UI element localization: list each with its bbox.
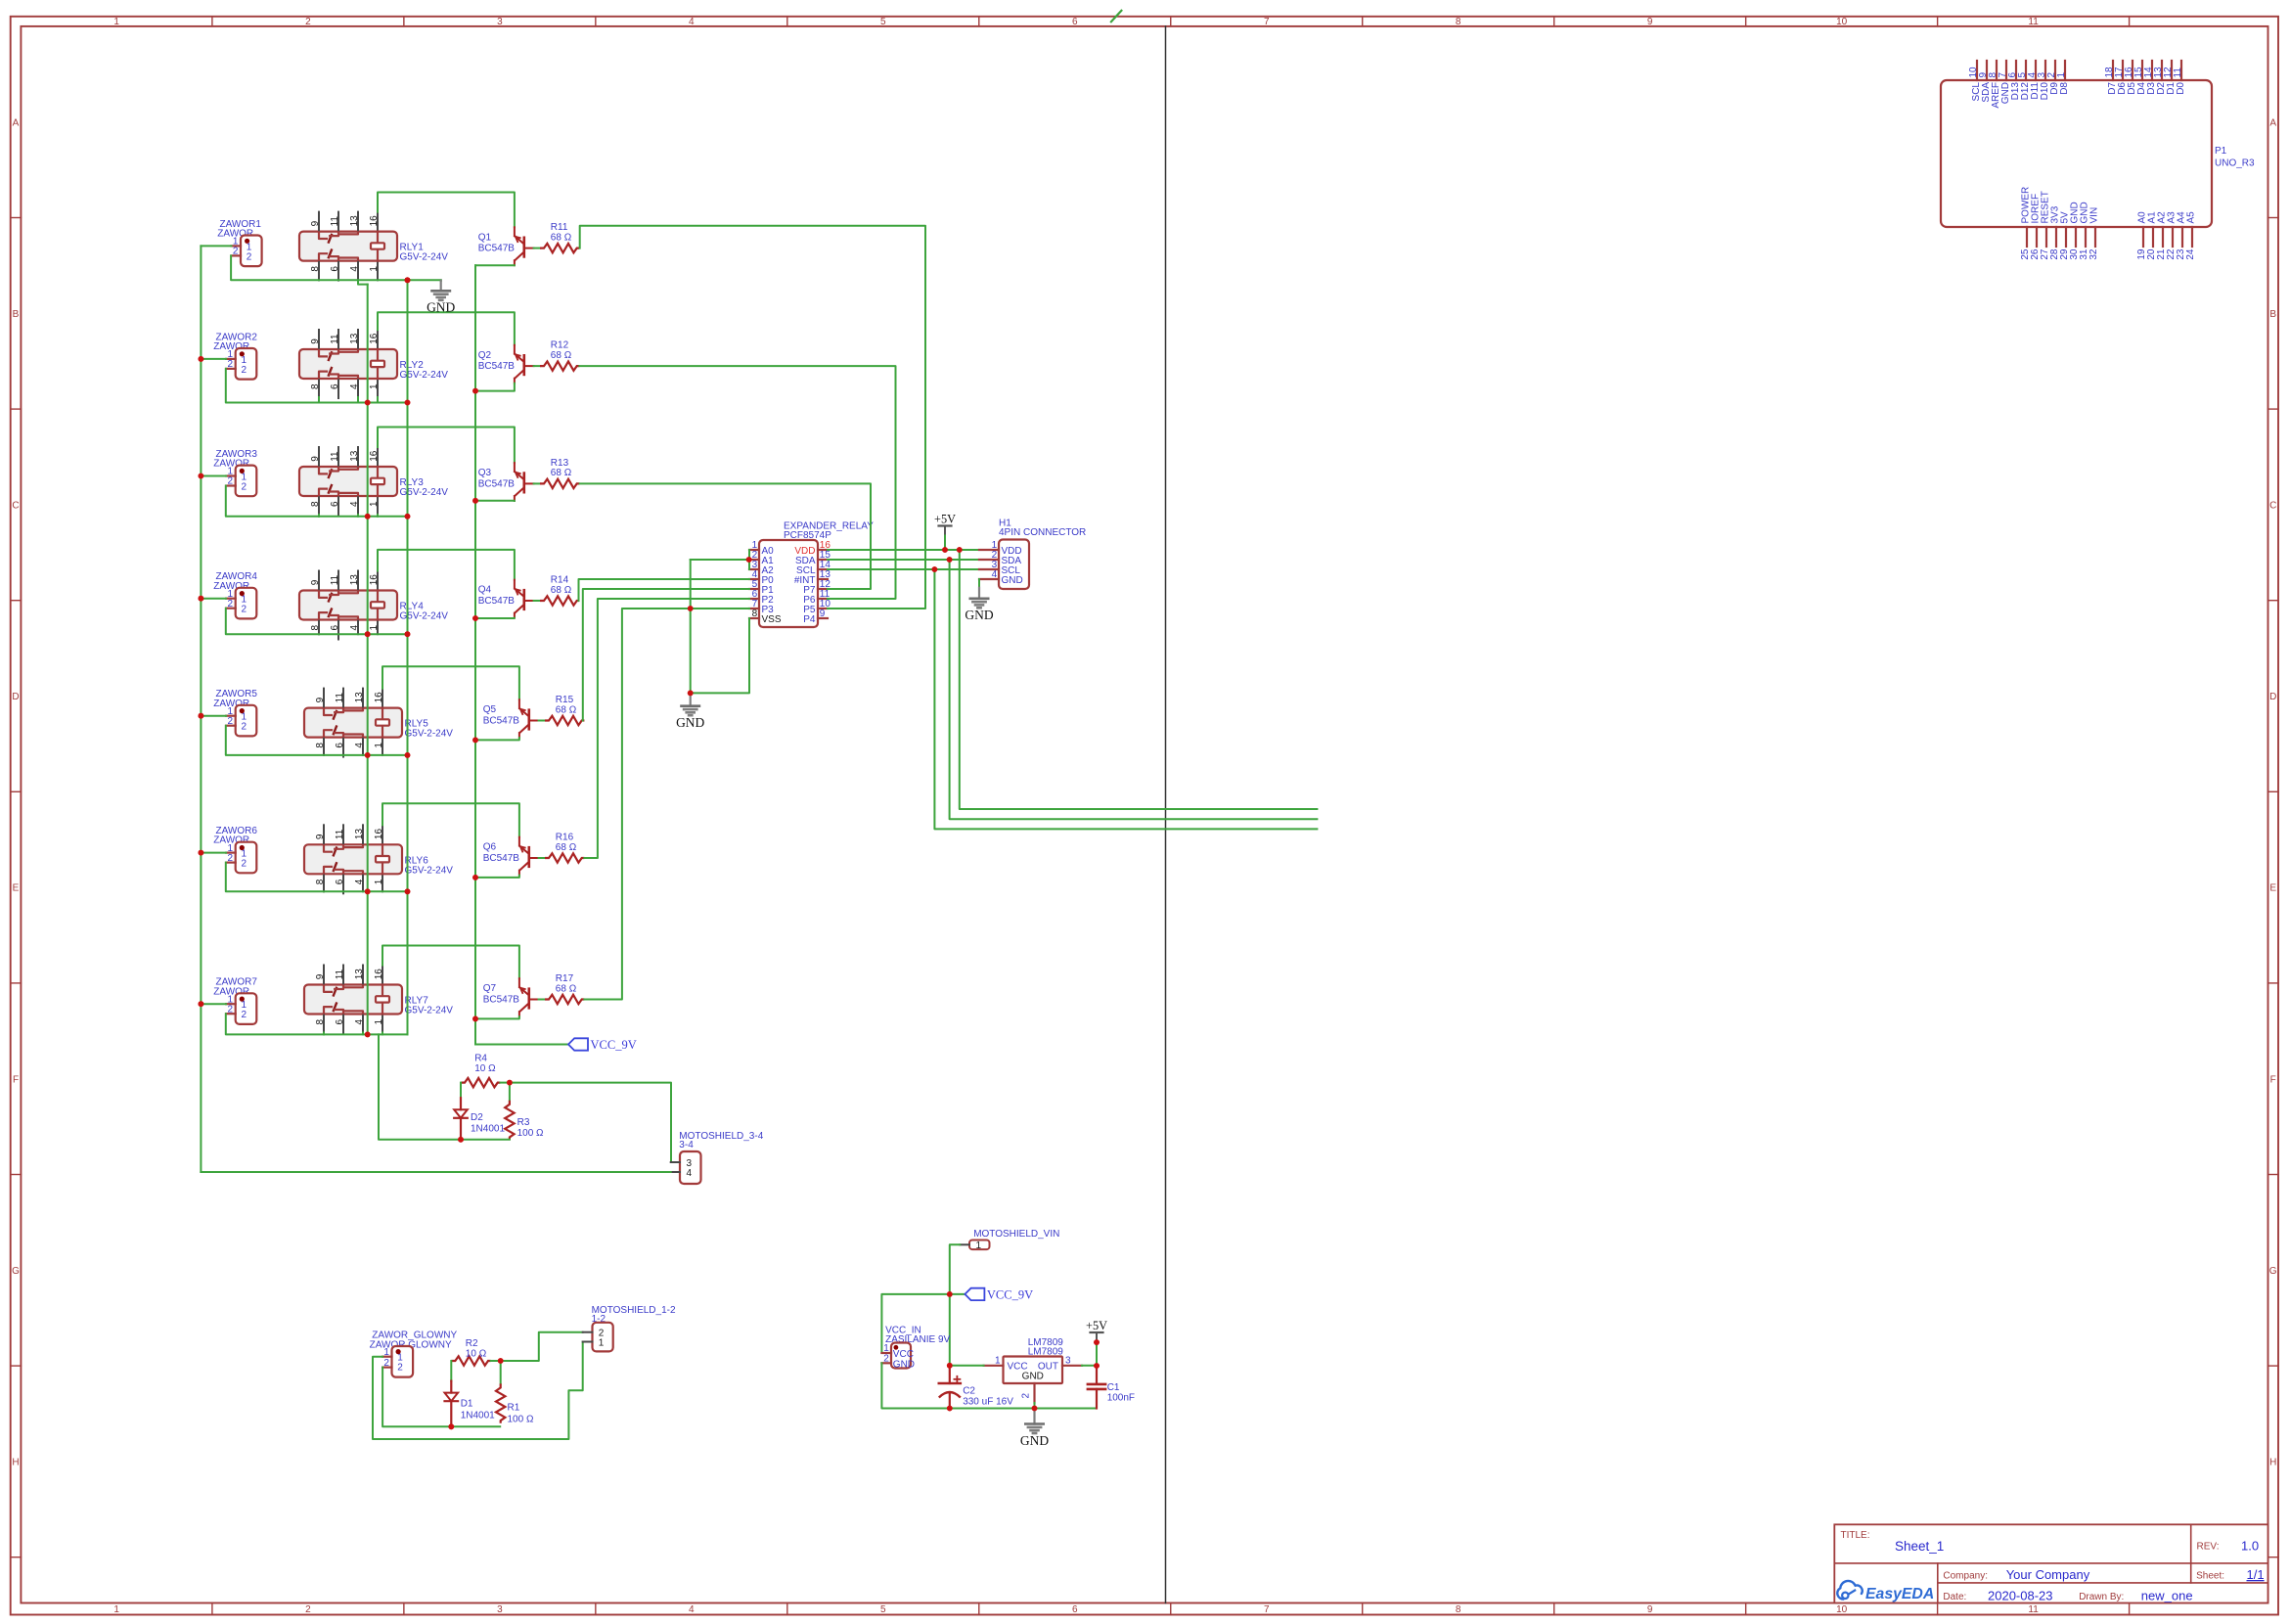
wire P0 to R14 output — [579, 579, 750, 601]
junction Q3 emitter / emitter rail — [472, 498, 478, 504]
svg-text:11: 11 — [335, 969, 345, 979]
svg-text:TITLE:: TITLE: — [1841, 1530, 1870, 1541]
wire R4 output stub — [500, 1082, 510, 1084]
resistor R2 10 ohm — [451, 1356, 490, 1365]
wire Q7 base to R17 — [539, 999, 545, 1001]
svg-text:R17: R17 — [556, 973, 574, 984]
svg-text:A: A — [2269, 117, 2276, 128]
svg-text:1.0: 1.0 — [2241, 1539, 2259, 1554]
wire ZAWOR3 pin2 down to row bottom net — [226, 486, 319, 517]
svg-text:GND: GND — [893, 1359, 915, 1370]
svg-text:2: 2 — [383, 1358, 389, 1369]
svg-text:9: 9 — [315, 834, 326, 839]
wire Q6 emitter to emitter rail — [475, 876, 519, 878]
wire ZAWOR5 pin1 to left rail — [201, 715, 226, 717]
wire RLY7 coil pin16 to Q7 collector — [382, 946, 519, 979]
relay RLY7 G5V-2-24V — [304, 985, 402, 1015]
stray green slash mark — [1111, 11, 1122, 22]
svg-text:Q3: Q3 — [478, 468, 492, 478]
net flag VCC_9V (left) — [568, 1038, 588, 1050]
svg-text:1: 1 — [374, 743, 384, 748]
svg-text:REV:: REV: — [2197, 1542, 2220, 1553]
wire pin4 jog to pin-4 chain rail — [358, 280, 368, 284]
wire RLY1 coil pin16 to Q1 collector — [378, 193, 515, 228]
svg-text:R14: R14 — [551, 574, 569, 585]
wire VCC_9V node down to LM7809 VCC — [949, 1294, 951, 1366]
junction C2 bottom — [947, 1406, 953, 1412]
svg-text:+5V: +5V — [934, 512, 956, 525]
ground GND (H1) — [978, 588, 980, 599]
wire R13 output to P7 — [580, 483, 871, 589]
svg-text:5: 5 — [880, 1604, 886, 1615]
svg-text:UNO_R3: UNO_R3 — [2215, 158, 2255, 169]
svg-text:2: 2 — [305, 1604, 311, 1615]
svg-text:VCC_9V: VCC_9V — [987, 1287, 1033, 1301]
wire Q2 base to R12 — [534, 365, 540, 367]
svg-text:C: C — [12, 501, 19, 512]
wire RLY3 coil pin16 to Q3 collector — [378, 428, 515, 464]
svg-text:32: 32 — [2088, 248, 2099, 260]
wire LM7809 VCC — [950, 1365, 984, 1367]
wire R2 left to D1 — [450, 1361, 452, 1381]
resistor R17 68 ohm — [545, 995, 584, 1004]
svg-text:11: 11 — [2173, 68, 2183, 78]
wire ZAWOR1 pin2 down to row bottom net — [231, 255, 319, 280]
relay RLY6 G5V-2-24V — [304, 844, 402, 874]
svg-text:68 Ω: 68 Ω — [551, 585, 572, 596]
junction LM7809 GND node — [1032, 1406, 1038, 1412]
relay RLY5 G5V-2-24V — [304, 708, 402, 738]
svg-text:2: 2 — [228, 476, 234, 487]
svg-text:VSS: VSS — [762, 614, 782, 625]
relay RLY3 G5V-2-24V — [299, 467, 397, 496]
junction ZAWOR4 pin1 / left rail — [199, 596, 204, 602]
svg-text:1: 1 — [599, 1338, 605, 1349]
svg-text:4PIN CONNECTOR: 4PIN CONNECTOR — [999, 527, 1086, 538]
wire R4 left to D2 — [460, 1083, 462, 1099]
wire RLY5 bottom net (pins 8,4,1) to ground rail — [324, 754, 408, 756]
svg-text:F: F — [2270, 1074, 2276, 1085]
svg-text:R11: R11 — [551, 222, 568, 233]
wire A1 to ground run — [691, 559, 749, 561]
wire R2 junction down to R1 — [500, 1361, 502, 1383]
wire MOTOSHIELD_VIN to VCC_9V node — [950, 1244, 960, 1294]
wire SDA drop to bus — [950, 560, 1318, 819]
wire RLY2 coil pin16 to Q2 collector — [378, 312, 515, 345]
junction row4 bottom net / pin4 rail — [365, 631, 371, 637]
wire Q3 emitter to emitter rail — [475, 500, 515, 502]
svg-text:100 Ω: 100 Ω — [517, 1128, 544, 1139]
svg-text:11: 11 — [330, 216, 340, 227]
svg-text:8: 8 — [315, 1018, 326, 1024]
svg-text:Your Company: Your Company — [2006, 1567, 2090, 1582]
svg-text:4: 4 — [687, 1168, 693, 1179]
svg-text:68 Ω: 68 Ω — [551, 350, 572, 361]
junction LM7809 VCC node — [947, 1363, 953, 1369]
resistor R16 68 ohm — [545, 853, 584, 862]
svg-text:13: 13 — [354, 829, 365, 840]
svg-text:EasyEDA: EasyEDA — [1865, 1586, 1934, 1602]
svg-text:D: D — [2269, 692, 2276, 702]
junction A1 tie — [746, 557, 752, 563]
capacitor C2 330uF 16V — [949, 1366, 951, 1383]
svg-text:C1: C1 — [1107, 1382, 1120, 1393]
wire Q4 emitter to emitter rail — [475, 617, 515, 619]
svg-text:13: 13 — [349, 450, 360, 462]
wire VCC_9V node to flag — [950, 1293, 965, 1295]
junction +5V/VDD — [942, 547, 948, 553]
svg-text:2: 2 — [305, 17, 311, 27]
svg-text:D: D — [12, 692, 19, 702]
svg-text:Date:: Date: — [1943, 1592, 1966, 1602]
svg-text:16: 16 — [374, 829, 384, 840]
wire LM7809 GND — [1034, 1403, 1036, 1409]
wire ZAWOR5 pin2 down to row bottom net — [226, 726, 324, 755]
resistor R13 68 ohm — [540, 479, 579, 488]
wire A0-A2 tie — [748, 550, 750, 569]
svg-text:R13: R13 — [551, 458, 569, 469]
resistor R4 10 ohm — [461, 1078, 500, 1087]
title block — [1834, 1524, 2268, 1602]
svg-text:6: 6 — [330, 501, 340, 507]
svg-text:11: 11 — [335, 693, 345, 703]
wire ZAWOR_GLOWNY pin1 to MOTOSHIELD_1-2 pin1 — [373, 1342, 583, 1440]
svg-text:R1: R1 — [508, 1402, 520, 1413]
wire RLY3 bottom net (pins 8,4,1) to ground rail — [319, 516, 408, 518]
svg-text:4: 4 — [349, 266, 360, 272]
svg-text:10: 10 — [1836, 1604, 1848, 1615]
svg-text:BC547B: BC547B — [478, 478, 516, 489]
wire Q1 emitter to emitter rail — [475, 264, 515, 266]
wire Q3 base to R13 — [534, 482, 540, 484]
svg-text:R15: R15 — [556, 695, 574, 705]
wire emitter rail to VCC_9V flag — [475, 1044, 568, 1046]
wire ZAWOR1 pin1 to left rail — [201, 245, 231, 247]
svg-text:2: 2 — [228, 716, 234, 727]
svg-text:G5V-2-24V: G5V-2-24V — [405, 1006, 454, 1016]
svg-text:new_one: new_one — [2141, 1589, 2193, 1603]
junction D2 bottom — [458, 1137, 464, 1143]
svg-text:6: 6 — [335, 743, 345, 748]
svg-text:6: 6 — [335, 879, 345, 884]
wire ZAWOR2 pin2 down to row bottom net — [226, 369, 319, 403]
svg-text:R3: R3 — [517, 1117, 530, 1128]
svg-text:7: 7 — [1264, 1604, 1270, 1615]
svg-text:4: 4 — [689, 1604, 695, 1615]
junction row5 bottom net / pin4 rail — [365, 752, 371, 758]
svg-text:1: 1 — [374, 1018, 384, 1024]
wire Q5 emitter to emitter rail — [475, 738, 519, 740]
resistor R1 100 ohm — [496, 1383, 505, 1422]
transistor Q4 BC547B — [522, 590, 525, 609]
svg-text:2: 2 — [247, 251, 252, 262]
svg-text:D1: D1 — [461, 1399, 473, 1410]
svg-text:8: 8 — [310, 501, 321, 507]
svg-text:11: 11 — [335, 829, 345, 839]
junction R4 output — [507, 1080, 513, 1086]
svg-text:9: 9 — [310, 579, 321, 585]
svg-text:1: 1 — [2056, 72, 2067, 78]
svg-text:8: 8 — [752, 609, 758, 619]
svg-text:BC547B: BC547B — [483, 994, 520, 1005]
svg-text:10 Ω: 10 Ω — [474, 1063, 496, 1074]
svg-text:2: 2 — [397, 1363, 403, 1374]
wire VCC_IN GND down — [881, 1363, 1097, 1408]
svg-text:Sheet:: Sheet: — [2196, 1571, 2224, 1582]
module P1 UNO_R3 (Arduino UNO) — [1941, 80, 2212, 227]
diode D2 1N4001 — [460, 1098, 462, 1109]
svg-text:1: 1 — [369, 501, 380, 507]
wire row1 bottom net to GND — [408, 279, 441, 281]
svg-text:GND: GND — [427, 300, 455, 315]
wire ZAWOR_GLOWNY pin2 bottom net — [382, 1368, 500, 1427]
svg-text:BC547B: BC547B — [478, 244, 516, 254]
svg-text:1N4001: 1N4001 — [461, 1410, 495, 1421]
svg-text:100nF: 100nF — [1107, 1392, 1135, 1403]
resistor R14 68 ohm — [540, 596, 579, 605]
svg-text:R16: R16 — [556, 832, 574, 842]
wire Q7 emitter to emitter rail — [475, 1016, 519, 1018]
wire R2 output to MOTOSHIELD_1-2 pin2 — [501, 1332, 583, 1361]
wire ZAWOR7 pin1 to left rail — [201, 1003, 226, 1005]
junction row3 bottom net / ground rail — [405, 514, 411, 519]
junction row7 bottom net / pin4 rail — [365, 1032, 371, 1038]
svg-text:1: 1 — [369, 266, 380, 272]
junction ZAWOR6 pin1 / left rail — [199, 850, 204, 856]
wire RLY4 bottom net (pins 8,4,1) to ground rail — [319, 633, 408, 635]
svg-text:330 uF 16V: 330 uF 16V — [963, 1396, 1013, 1407]
wire RLY4 coil pin16 to Q4 collector — [378, 550, 515, 580]
svg-text:2: 2 — [883, 1354, 889, 1365]
svg-text:2: 2 — [242, 605, 247, 615]
svg-text:68 Ω: 68 Ω — [551, 468, 572, 478]
svg-text:3: 3 — [497, 17, 503, 27]
wire SCL drop to bus — [934, 569, 1317, 829]
wire SDA to H1 pin2 — [828, 559, 979, 561]
svg-text:6: 6 — [335, 1018, 345, 1024]
resistor R11 68 ohm — [540, 244, 579, 252]
wire Q5 base to R15 — [539, 720, 545, 722]
svg-text:1: 1 — [369, 383, 380, 389]
zawor pin1 rail vertical — [200, 246, 202, 1172]
svg-text:2: 2 — [233, 247, 239, 257]
junction VSS/A ground node — [688, 691, 694, 697]
svg-text:4: 4 — [354, 1018, 365, 1024]
svg-text:H: H — [2269, 1458, 2276, 1468]
svg-text:BC547B: BC547B — [483, 853, 520, 864]
junction row4 bottom net / ground rail — [405, 631, 411, 637]
junction VCC_9V node — [947, 1291, 953, 1297]
junction LM7809 OUT node — [1094, 1363, 1100, 1369]
svg-text:2: 2 — [228, 599, 234, 609]
svg-text:Q7: Q7 — [483, 983, 497, 994]
svg-text:G: G — [12, 1266, 20, 1277]
svg-text:VCC_9V: VCC_9V — [591, 1038, 637, 1052]
svg-text:8: 8 — [315, 743, 326, 748]
svg-text:C: C — [2269, 501, 2276, 512]
ground rail vertical (coil common) — [407, 280, 409, 1034]
junction Q2 emitter / emitter rail — [472, 388, 478, 394]
wire RLY2 bottom net (pins 8,4,1) to ground rail — [319, 402, 408, 404]
svg-text:GND: GND — [1020, 1433, 1049, 1448]
svg-text:Q4: Q4 — [478, 585, 492, 596]
junction D1 bottom — [448, 1423, 454, 1429]
capacitor C1 100nF — [1096, 1366, 1098, 1384]
transistor Q5 BC547B — [527, 710, 530, 730]
svg-text:Q5: Q5 — [483, 704, 497, 715]
wire ZAWOR4 pin1 to left rail — [201, 598, 226, 600]
resistor R15 68 ohm — [545, 716, 584, 725]
wire ZAWOR2 pin1 to left rail — [201, 358, 226, 360]
junction row3 bottom net / pin4 rail — [365, 514, 371, 519]
svg-text:9: 9 — [310, 220, 321, 226]
svg-text:11: 11 — [2028, 1604, 2039, 1615]
svg-text:B: B — [13, 309, 20, 320]
svg-text:16: 16 — [369, 574, 380, 586]
junction +5V node — [1094, 1339, 1100, 1345]
svg-text:B: B — [2269, 309, 2276, 320]
junction row1 ground — [405, 277, 411, 283]
svg-text:1N4001: 1N4001 — [471, 1124, 505, 1135]
wire R4 output to MOTOSHIELD pin3 — [510, 1083, 671, 1162]
EasyEDA logo — [1837, 1581, 1862, 1600]
svg-text:4: 4 — [349, 501, 360, 507]
junction row6 bottom net / ground rail — [405, 888, 411, 894]
svg-text:R2: R2 — [466, 1338, 478, 1349]
svg-text:2: 2 — [228, 359, 234, 370]
svg-text:16: 16 — [369, 215, 380, 227]
wire Q4 base to R14 — [534, 600, 540, 602]
junction Q5 emitter / emitter rail — [472, 738, 478, 744]
svg-text:9: 9 — [1647, 17, 1653, 27]
wire ZAWOR7 pin2 down to row bottom net — [226, 1014, 324, 1034]
svg-text:Q2: Q2 — [478, 350, 492, 361]
svg-text:A: A — [13, 117, 20, 128]
svg-text:11: 11 — [2028, 17, 2039, 27]
resistor R12 68 ohm — [540, 361, 579, 370]
wire SCL to H1 pin3 — [828, 568, 979, 570]
svg-text:8: 8 — [315, 879, 326, 884]
junction row5 bottom net / ground rail — [405, 752, 411, 758]
svg-text:A5: A5 — [2186, 211, 2197, 224]
svg-text:8: 8 — [310, 383, 321, 389]
svg-text:GND: GND — [965, 608, 993, 622]
junction dots overlay — [405, 277, 411, 283]
svg-text:G: G — [2269, 1266, 2277, 1277]
svg-text:4: 4 — [349, 383, 360, 389]
junction row2 bottom net / ground rail — [405, 400, 411, 406]
emitter rail vertical — [474, 265, 476, 1044]
svg-text:11: 11 — [330, 334, 340, 344]
svg-text:24: 24 — [2185, 248, 2196, 260]
svg-text:Drawn By:: Drawn By: — [2079, 1592, 2124, 1602]
svg-text:2: 2 — [228, 853, 234, 864]
diode D1 1N4001 — [450, 1381, 452, 1393]
junction ZAWOR2 pin1 / left rail — [199, 356, 204, 362]
svg-text:4: 4 — [689, 17, 695, 27]
wire ZAWOR6 pin2 down to row bottom net — [226, 863, 324, 892]
wire ZAWOR4 pin2 down to row bottom net — [226, 609, 319, 635]
junction P3 net at ground run — [688, 606, 694, 611]
wire RLY6 bottom net (pins 8,4,1) to ground rail — [324, 890, 408, 892]
junction ZAWOR7 pin1 / left rail — [199, 1001, 204, 1007]
wire Q1 base to R11 — [534, 248, 540, 249]
svg-text:9: 9 — [315, 973, 326, 979]
resistor R3 100 ohm — [505, 1101, 514, 1140]
wire Q2 emitter to emitter rail — [475, 383, 515, 391]
svg-text:E: E — [13, 883, 20, 894]
wire VSS down — [691, 618, 749, 693]
svg-text:1: 1 — [369, 624, 380, 630]
svg-text:2: 2 — [228, 1004, 234, 1015]
svg-text:13: 13 — [354, 969, 365, 980]
relay RLY4 G5V-2-24V — [299, 591, 397, 620]
wire A-pins ground vertical — [690, 560, 692, 693]
junction Q4 emitter / emitter rail — [472, 615, 478, 621]
svg-text:R4: R4 — [474, 1054, 487, 1064]
wire RLY5 coil pin16 to Q5 collector — [382, 666, 519, 699]
wire R4 junction down to R3 — [509, 1083, 511, 1101]
svg-text:Sheet_1: Sheet_1 — [1895, 1539, 1944, 1554]
svg-text:R12: R12 — [551, 340, 569, 351]
sheet divider line — [1165, 26, 1167, 1603]
svg-text:1: 1 — [374, 879, 384, 884]
wire LM7809 OUT to +5V — [1082, 1365, 1097, 1367]
svg-text:Q1: Q1 — [478, 232, 492, 243]
svg-text:6: 6 — [1072, 1604, 1078, 1615]
svg-text:1: 1 — [113, 17, 119, 27]
relay RLY2 G5V-2-24V — [299, 349, 397, 379]
svg-text:E: E — [2269, 883, 2276, 894]
relay RLY1 G5V-2-24V — [299, 232, 397, 261]
junction ZAWOR3 pin1 / left rail — [199, 474, 204, 479]
wire ZAWOR6 pin1 to left rail — [201, 852, 226, 854]
svg-text:G5V-2-24V: G5V-2-24V — [400, 252, 449, 263]
wire VDD drop to bus — [960, 550, 1318, 809]
junction Q6 emitter / emitter rail — [472, 875, 478, 880]
svg-text:8: 8 — [310, 266, 321, 272]
svg-text:5: 5 — [880, 17, 886, 27]
wire RLY7 bottom net (pins 8,4,1) to ground rail — [324, 1033, 408, 1035]
svg-text:G5V-2-24V: G5V-2-24V — [405, 729, 454, 740]
svg-text:16: 16 — [374, 692, 384, 703]
svg-text:BC547B: BC547B — [483, 715, 520, 726]
wire +5V to OUT — [1096, 1342, 1098, 1366]
svg-text:13: 13 — [349, 574, 360, 586]
transistor Q2 BC547B — [522, 355, 525, 375]
wire ZAWOR3 pin1 to left rail — [201, 475, 226, 477]
svg-text:VIN: VIN — [2089, 207, 2100, 224]
svg-text:4: 4 — [992, 569, 998, 580]
ground GND (LM7809) — [1033, 1409, 1035, 1424]
svg-text:9: 9 — [1647, 1604, 1653, 1615]
ground GND (PCF VSS) — [690, 694, 692, 706]
svg-text:10 Ω: 10 Ω — [466, 1349, 487, 1360]
svg-text:BC547B: BC547B — [478, 361, 516, 372]
svg-text:7: 7 — [1264, 17, 1270, 27]
transistor Q1 BC547B — [522, 238, 525, 257]
svg-text:2: 2 — [1021, 1393, 1032, 1399]
svg-text:MOTOSHIELD_VIN: MOTOSHIELD_VIN — [973, 1229, 1059, 1240]
wire snubber bottom rail — [379, 1034, 510, 1139]
svg-text:Q6: Q6 — [483, 842, 497, 853]
ground GND (row1) — [440, 279, 442, 282]
svg-text:4: 4 — [354, 879, 365, 884]
wire P1 to R15 output — [583, 589, 749, 721]
svg-text:9: 9 — [315, 697, 326, 702]
svg-text:68 Ω: 68 Ω — [551, 232, 572, 243]
svg-text:3: 3 — [497, 1604, 503, 1615]
